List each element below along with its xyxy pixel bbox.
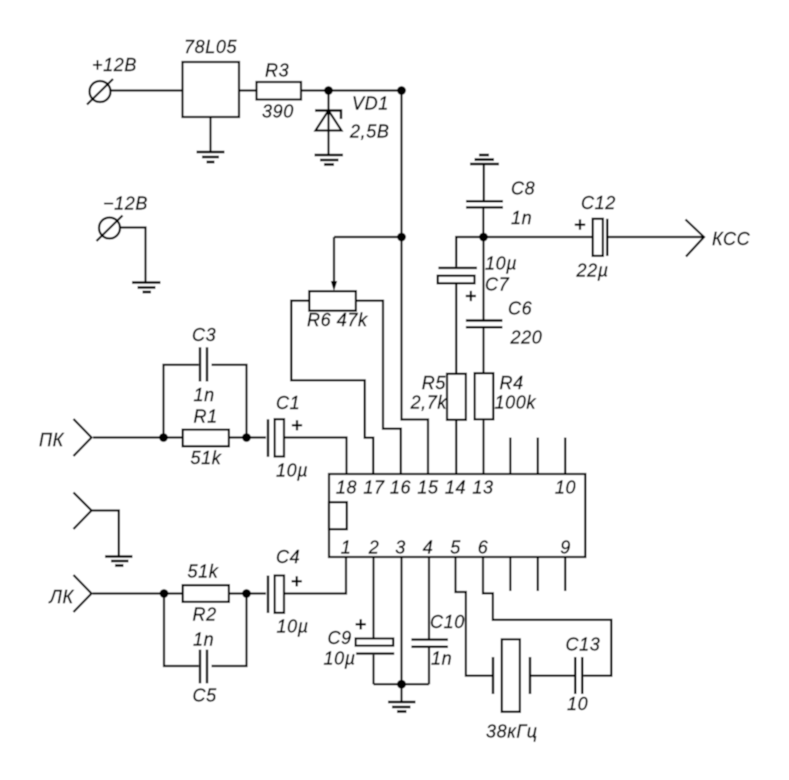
svg-text:14: 14 — [445, 478, 466, 498]
svg-text:ЛК: ЛК — [49, 587, 75, 607]
svg-text:2,5В: 2,5В — [349, 122, 389, 142]
svg-text:18: 18 — [336, 478, 357, 498]
svg-text:R3: R3 — [265, 61, 289, 81]
svg-text:C10: C10 — [430, 612, 465, 632]
svg-text:R6 47k: R6 47k — [307, 310, 368, 330]
svg-text:R4: R4 — [500, 373, 524, 393]
svg-text:C3: C3 — [192, 325, 216, 345]
svg-text:5: 5 — [450, 538, 461, 558]
svg-text:1n: 1n — [511, 208, 532, 228]
svg-text:10µ: 10µ — [485, 254, 517, 274]
svg-text:R2: R2 — [193, 605, 217, 625]
svg-text:9: 9 — [560, 538, 571, 558]
svg-text:78L05: 78L05 — [184, 37, 237, 57]
svg-text:C8: C8 — [511, 179, 535, 199]
svg-text:51k: 51k — [191, 448, 222, 468]
svg-text:22µ: 22µ — [576, 261, 609, 281]
svg-text:1: 1 — [341, 538, 352, 558]
svg-text:390: 390 — [262, 102, 294, 122]
svg-text:VD1: VD1 — [352, 94, 389, 114]
svg-text:6: 6 — [478, 538, 489, 558]
svg-text:+12В: +12В — [92, 55, 137, 75]
svg-text:10µ: 10µ — [277, 616, 309, 636]
svg-text:1n: 1n — [193, 630, 214, 650]
svg-text:220: 220 — [510, 328, 543, 348]
svg-text:51k: 51k — [188, 562, 219, 582]
svg-text:C13: C13 — [566, 635, 601, 655]
svg-text:КСС: КСС — [712, 229, 751, 249]
svg-text:4: 4 — [423, 538, 434, 558]
svg-text:−12В: −12В — [103, 194, 148, 214]
svg-text:C1: C1 — [276, 393, 300, 413]
svg-text:3: 3 — [395, 538, 406, 558]
svg-text:13: 13 — [472, 478, 493, 498]
svg-text:15: 15 — [417, 478, 439, 498]
svg-text:2,7k: 2,7k — [410, 393, 448, 413]
svg-text:2: 2 — [368, 538, 380, 558]
svg-text:17: 17 — [363, 478, 385, 498]
svg-text:1n: 1n — [431, 649, 452, 669]
svg-text:C9: C9 — [328, 628, 352, 648]
svg-text:10µ: 10µ — [276, 460, 308, 480]
svg-text:C7: C7 — [485, 275, 510, 295]
svg-text:C12: C12 — [581, 193, 616, 213]
svg-text:C4: C4 — [276, 547, 300, 567]
svg-text:R5: R5 — [422, 373, 447, 393]
svg-text:C6: C6 — [508, 299, 533, 319]
svg-text:100k: 100k — [495, 393, 537, 413]
svg-text:10µ: 10µ — [324, 649, 356, 669]
svg-text:16: 16 — [390, 478, 412, 498]
svg-text:1n: 1n — [194, 385, 215, 405]
svg-text:38кГц: 38кГц — [486, 722, 538, 742]
svg-text:10: 10 — [567, 694, 588, 714]
svg-text:C5: C5 — [193, 686, 218, 706]
svg-text:10: 10 — [555, 478, 576, 498]
svg-text:ПК: ПК — [39, 430, 65, 450]
svg-text:R1: R1 — [194, 407, 218, 427]
